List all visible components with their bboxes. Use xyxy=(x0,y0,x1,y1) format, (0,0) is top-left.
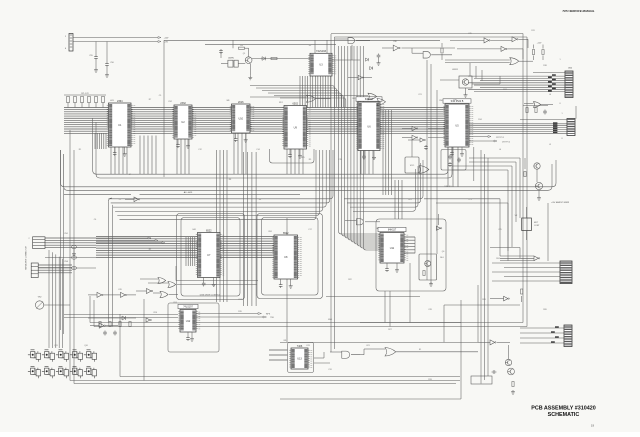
svg-text:R17: R17 xyxy=(503,89,506,91)
wire drops U1 to loop xyxy=(111,147,127,174)
svg-text:R7: R7 xyxy=(149,99,151,101)
svg-text:R18: R18 xyxy=(543,65,546,67)
svg-text:16MHz: 16MHz xyxy=(228,58,234,60)
wire right mid runs xyxy=(469,157,520,159)
svg-text:1: 1 xyxy=(559,59,560,61)
svg-text:C17: C17 xyxy=(308,229,311,231)
wire enclosure U7 outer xyxy=(177,214,245,300)
svg-text:C15: C15 xyxy=(338,159,341,161)
resistor pack RP1 xyxy=(67,97,70,103)
svg-text:8: 8 xyxy=(561,138,562,140)
svg-text:L5: L5 xyxy=(549,144,551,146)
wire verticals right of center xyxy=(426,60,428,280)
ground under IC xyxy=(290,279,292,284)
op-amp U14 xyxy=(436,226,441,230)
gate U4A xyxy=(307,95,316,102)
choke L2 xyxy=(71,256,76,259)
wire serial drop bundle xyxy=(48,250,50,348)
IC U11 74LS157 xyxy=(378,227,408,263)
IC U8 VIA 6522 xyxy=(272,232,301,279)
wire CN2 riser xyxy=(575,106,577,119)
wire CN4 fan xyxy=(492,262,560,264)
wire drops U9 to loop xyxy=(287,149,303,174)
gate U31 AND xyxy=(423,52,430,59)
svg-text:PB0: PB0 xyxy=(439,100,443,102)
gate U19E pair xyxy=(158,278,166,284)
svg-text:R21: R21 xyxy=(408,199,411,201)
svg-text:A0 - A15: A0 - A15 xyxy=(184,191,193,194)
svg-text:CLR: CLR xyxy=(173,302,177,304)
svg-text:CB1: CB1 xyxy=(268,231,272,233)
resistor R10 R11 xyxy=(533,45,535,49)
svg-text:C55: C55 xyxy=(89,55,92,57)
subcircuit caps under U5 xyxy=(441,150,466,171)
wire row1-row2 link bundle B xyxy=(244,152,257,306)
ground under IC xyxy=(299,149,301,154)
capacitor C30 xyxy=(492,370,497,374)
inverter U15B xyxy=(512,37,518,42)
inverter U19F xyxy=(99,323,105,328)
svg-text:R9: R9 xyxy=(309,159,311,161)
capacitor C55 xyxy=(95,42,97,56)
connector CN1A xyxy=(33,237,45,249)
IC U13 74LS04 xyxy=(289,345,312,369)
wire enclosure U8 outer xyxy=(257,214,323,299)
svg-text:R1: R1 xyxy=(79,149,81,151)
resistor-diode cluster xyxy=(56,350,69,362)
wire vertical x144 xyxy=(143,299,145,381)
svg-text:C2: C2 xyxy=(119,199,121,201)
svg-text:CN6: CN6 xyxy=(64,261,68,263)
svg-text:CRT P1 1: CRT P1 1 xyxy=(496,137,504,139)
wire U11 top feed xyxy=(395,180,402,219)
svg-text:U13: U13 xyxy=(306,345,309,347)
svg-text:S1: S1 xyxy=(419,349,421,351)
gate U4B xyxy=(368,93,377,100)
svg-text:R16: R16 xyxy=(453,99,456,101)
svg-text:L6: L6 xyxy=(549,94,551,96)
inverter U15A xyxy=(484,38,490,43)
wire U3 to frame xyxy=(314,40,316,53)
wire mid loop verticals xyxy=(108,201,110,322)
svg-text:R14: R14 xyxy=(478,119,481,121)
gate U19D xyxy=(160,291,168,297)
IC U2 ROM 2332 xyxy=(172,102,196,139)
wire U7 left pin bundle xyxy=(186,237,195,266)
IC U6 74LS157 xyxy=(356,97,384,151)
capacitor decoupling xyxy=(386,263,388,267)
svg-text:R11: R11 xyxy=(531,30,534,32)
wire J1 outputs xyxy=(73,37,158,39)
svg-text:TP3: TP3 xyxy=(468,199,471,201)
svg-text:C25: C25 xyxy=(498,229,501,231)
IC U10 RAM 2016 xyxy=(230,101,254,133)
svg-text:16.6: 16.6 xyxy=(440,257,444,259)
wire big loop 1 xyxy=(93,118,448,174)
resistor-diode cluster xyxy=(42,366,55,378)
wire osc output xyxy=(252,58,310,60)
ground J1 filters xyxy=(95,60,97,68)
wire enclosure U13 xyxy=(288,343,314,373)
svg-text:U4: U4 xyxy=(259,199,261,201)
svg-text:6522: 6522 xyxy=(206,229,212,232)
svg-text:+5V SERVO 2328: +5V SERVO 2328 xyxy=(551,202,569,204)
resistor-diode cluster xyxy=(84,350,97,362)
wire right mid-bottom xyxy=(444,304,520,306)
svg-text:U19: U19 xyxy=(118,289,121,291)
trimmer VR2 xyxy=(35,301,43,309)
transistor Q9 xyxy=(508,368,515,375)
op-amp U27 xyxy=(412,126,418,131)
svg-text:Q6: Q6 xyxy=(442,251,445,253)
wire drop bundle U1-U2 xyxy=(140,136,156,175)
wire motor lines xyxy=(490,247,520,249)
wire bottom right runs xyxy=(280,341,478,343)
svg-text:PCB ASSEMBLY #310420: PCB ASSEMBLY #310420 xyxy=(531,406,596,412)
wire right verticals xyxy=(480,150,482,384)
ground chokes xyxy=(73,249,75,252)
connector CN3 xyxy=(567,119,575,136)
wire box M drop bundle xyxy=(300,76,331,108)
svg-text:+12V: +12V xyxy=(164,38,169,40)
resistor-diode cluster xyxy=(56,366,69,378)
svg-text:L4: L4 xyxy=(499,149,501,151)
ground under IC xyxy=(245,133,247,138)
svg-text:C9: C9 xyxy=(159,95,161,97)
wire CN3 fan xyxy=(469,123,567,125)
capacitor C56 xyxy=(106,42,108,63)
svg-text:C24: C24 xyxy=(238,299,241,301)
svg-text:74LS197: 74LS197 xyxy=(183,306,193,309)
wire Q1 links xyxy=(248,48,250,57)
transistor Q5 xyxy=(535,182,542,189)
wire row2 bus xyxy=(96,237,274,258)
svg-text:R2: R2 xyxy=(149,249,151,251)
svg-text:C28: C28 xyxy=(428,309,431,311)
wire left connector fan 2 xyxy=(38,265,72,273)
crystal Y1 16MHz xyxy=(228,60,233,67)
svg-text:R19: R19 xyxy=(238,311,241,313)
resistor R30 xyxy=(512,382,514,387)
diode CR5 xyxy=(122,316,126,320)
wire top frame horizontal xyxy=(164,39,440,41)
capacitor decoupling xyxy=(114,147,116,151)
subcircuit VCO box xyxy=(405,157,419,173)
svg-text:1: 1 xyxy=(561,113,562,115)
capacitor decoupling xyxy=(203,278,205,282)
wire left connector fan 1 xyxy=(45,238,96,248)
resistor R13 xyxy=(441,43,443,47)
ground Y1 xyxy=(249,64,251,76)
transistor Q1 xyxy=(245,57,252,64)
svg-text:LM311: LM311 xyxy=(452,69,459,71)
wire address label line xyxy=(64,193,131,195)
gate U4C xyxy=(348,38,355,44)
svg-text:74LS193: 74LS193 xyxy=(316,50,327,53)
connector CN2 xyxy=(565,71,573,98)
ground under IC xyxy=(124,147,126,152)
IC U5 VIA 6522 xyxy=(443,99,473,147)
inverter U32 xyxy=(358,75,364,79)
ground under IC xyxy=(373,151,375,156)
svg-text:C14: C14 xyxy=(256,149,259,151)
svg-text:U21: U21 xyxy=(366,345,369,347)
svg-text:64H157: 64H157 xyxy=(388,229,397,232)
op-amp U17 xyxy=(504,296,510,301)
svg-text:CS2: CS2 xyxy=(168,101,172,103)
gate U18 xyxy=(356,219,363,225)
voltage regulator VR1 xyxy=(522,218,532,231)
wire gate row links xyxy=(176,280,258,282)
svg-text:IN1: IN1 xyxy=(284,340,287,342)
capacitor decoupling xyxy=(451,147,453,151)
svg-text:U15: U15 xyxy=(468,33,471,35)
svg-text:7071 SERVICE MANUAL: 7071 SERVICE MANUAL xyxy=(562,9,594,13)
wire U13 to gates xyxy=(314,357,324,359)
wire VIA test points xyxy=(469,136,488,138)
buffer U15C xyxy=(501,46,507,51)
svg-text:CONT: CONT xyxy=(534,225,540,227)
ground Q3 xyxy=(465,88,467,93)
svg-text:U3: U3 xyxy=(309,45,311,47)
subcircuit stepper driver xyxy=(419,254,437,280)
ground under IC xyxy=(213,278,215,283)
svg-text:R26: R26 xyxy=(543,309,546,311)
svg-text:R3: R3 xyxy=(240,45,242,47)
ground under IC xyxy=(396,263,398,268)
wire top right run xyxy=(331,33,523,35)
wire U5 drop xyxy=(473,147,475,181)
resistor R3 xyxy=(239,47,245,49)
svg-text:U11: U11 xyxy=(390,247,395,250)
svg-text:C31: C31 xyxy=(328,369,331,371)
wire drops U5 xyxy=(448,147,458,187)
gate U4D xyxy=(377,98,386,105)
svg-text:DISK DRIVE CONTROL: DISK DRIVE CONTROL xyxy=(200,294,221,296)
connector CN4 xyxy=(560,261,572,284)
resistor network above CN3 xyxy=(526,108,528,113)
gate U24 xyxy=(419,166,429,174)
svg-text:WPS: WPS xyxy=(266,314,271,316)
svg-text:TR0: TR0 xyxy=(270,317,274,319)
svg-text:U13: U13 xyxy=(297,358,302,361)
svg-text:2: 2 xyxy=(29,238,30,240)
wire U11 feed bundle xyxy=(339,46,381,234)
wire mid loop bottoms xyxy=(90,322,523,324)
wire U11 right stubs xyxy=(404,237,415,253)
wire U3 right fan xyxy=(250,86,334,108)
svg-text:VR2: VR2 xyxy=(38,297,42,299)
capacitor C18 xyxy=(377,54,381,59)
capacitor C32 xyxy=(424,145,428,150)
svg-text:+12V: +12V xyxy=(537,43,542,45)
svg-text:C12: C12 xyxy=(198,149,201,151)
wire drops U2 to loop xyxy=(177,139,189,174)
wire U12 leads xyxy=(64,314,178,316)
transistor Q4 xyxy=(534,163,540,169)
wire staggered right extensions xyxy=(344,160,423,199)
svg-text:U10: U10 xyxy=(238,118,243,121)
resistor-diode cluster xyxy=(28,366,41,378)
svg-text:CRT P1 2: CRT P1 2 xyxy=(502,141,510,143)
wire box under U9 xyxy=(270,149,315,163)
capacitor decoupling xyxy=(363,151,365,155)
svg-text:R75: R75 xyxy=(301,157,304,159)
svg-text:R28: R28 xyxy=(482,299,485,301)
wire enclosure U12 xyxy=(168,303,219,352)
connector J1 power xyxy=(69,34,73,52)
wire drops U10 to loop xyxy=(234,133,246,174)
svg-text:SCHEMATIC: SCHEMATIC xyxy=(548,412,580,418)
op-amp U28 xyxy=(412,135,418,140)
capacitor decoupling xyxy=(280,279,282,283)
wire outer band line 2 xyxy=(64,154,552,190)
resistor R31 box xyxy=(471,376,492,384)
resistor-diode cluster xyxy=(70,366,83,378)
inverter U19C xyxy=(147,288,153,293)
wire drops U6 to loop xyxy=(361,151,373,175)
IC U7 VIA 6522 xyxy=(196,229,224,277)
svg-text:DRK SO: DRK SO xyxy=(444,186,452,188)
svg-text:C21: C21 xyxy=(418,94,421,96)
svg-text:R27: R27 xyxy=(388,329,391,331)
inverter U26 xyxy=(146,318,151,322)
connector CN1B xyxy=(31,263,38,278)
capacitor decoupling xyxy=(177,139,179,143)
resistor-diode cluster xyxy=(70,350,83,362)
gate U21 xyxy=(342,351,350,358)
IC U12 74LS197 xyxy=(178,304,200,332)
svg-text:U30: U30 xyxy=(393,41,396,43)
wire big loop 2 xyxy=(96,122,452,178)
capacitor decoupling xyxy=(289,149,291,153)
wire CN2 fan xyxy=(468,75,565,77)
svg-text:2332: 2332 xyxy=(180,102,186,105)
ground Q5 xyxy=(538,190,540,196)
inverter U20A xyxy=(134,197,140,202)
connector CN5 xyxy=(564,325,572,347)
wire outer band line 1 xyxy=(61,150,557,187)
svg-text:8: 8 xyxy=(559,103,560,105)
svg-text:6502: 6502 xyxy=(292,102,298,105)
component reference labels xyxy=(54,30,562,381)
comparator Q3 LM311 xyxy=(459,76,472,88)
ground under IC xyxy=(187,139,189,144)
wire center verticals xyxy=(330,34,332,323)
resistor-diode cluster xyxy=(84,366,97,378)
wire bottom long doubles xyxy=(70,380,460,382)
wire mid bottom long xyxy=(120,376,460,378)
svg-text:2016: 2016 xyxy=(238,101,244,104)
resistor-diode cluster xyxy=(28,350,41,362)
svg-text:SEL: SEL xyxy=(352,98,356,100)
ground under IC xyxy=(461,147,463,152)
svg-text:R8: R8 xyxy=(229,179,231,181)
diode network left xyxy=(88,317,136,319)
wire drop bundle left of U1 xyxy=(95,133,106,149)
svg-text:C6: C6 xyxy=(94,219,96,221)
svg-text:C56: C56 xyxy=(110,62,113,64)
svg-text:VCO: VCO xyxy=(410,165,415,167)
choke L3 xyxy=(71,266,76,269)
op-amp U16 xyxy=(534,256,540,261)
svg-text:CR6: CR6 xyxy=(153,312,157,314)
svg-text:RP 4.7K: RP 4.7K xyxy=(81,93,89,95)
wire enclosure U8 inner xyxy=(262,218,319,296)
wire U11 drops xyxy=(384,291,386,323)
svg-text:Q10: Q10 xyxy=(84,345,88,347)
IC U3 divider 74LS193 xyxy=(308,50,336,76)
wire left outer verticals xyxy=(69,130,71,381)
svg-text:SERIAL BUS CONNECTOR: SERIAL BUS CONNECTOR xyxy=(25,245,28,269)
svg-text:C7: C7 xyxy=(129,174,131,176)
svg-text:6522: 6522 xyxy=(283,232,289,235)
transistor Q8 xyxy=(505,359,511,365)
wire data-address bus row1 xyxy=(64,108,445,134)
wire U13 inputs xyxy=(269,350,288,360)
svg-text:R33: R33 xyxy=(428,379,431,381)
svg-text:2364: 2364 xyxy=(117,100,123,103)
gate U15E xyxy=(533,102,540,108)
resistor R5 xyxy=(271,57,277,59)
svg-text:GND: GND xyxy=(328,319,333,321)
resistor R25 xyxy=(521,289,523,294)
inverter U23 xyxy=(490,340,496,345)
inverter U19A xyxy=(97,292,103,297)
IC U1 ROM 2364 xyxy=(107,100,135,147)
diode CR7 CR8 xyxy=(365,58,368,61)
svg-text:Q1: Q1 xyxy=(243,53,246,55)
wire gate feeds xyxy=(330,323,332,353)
gate U22 xyxy=(385,348,396,356)
resistor-diode cluster xyxy=(42,350,55,362)
capacitor decoupling xyxy=(235,133,237,137)
svg-text:R24: R24 xyxy=(496,258,499,260)
wire CN4 riser xyxy=(547,203,549,261)
capacitor C29 xyxy=(187,332,189,336)
inverter U19B xyxy=(121,292,127,297)
wire frame vertical x164 xyxy=(163,40,165,177)
capacitor C4 xyxy=(219,49,223,54)
wire staggered mid band lines xyxy=(109,150,334,199)
svg-text:A13: A13 xyxy=(110,99,113,102)
wire U6 right drop bundle xyxy=(383,110,391,195)
svg-text:R22: R22 xyxy=(348,279,351,281)
wire Q8 collector xyxy=(508,345,510,359)
gate U15D xyxy=(510,58,519,65)
resistor R20 xyxy=(524,172,526,177)
svg-text:7406: 7406 xyxy=(297,345,303,348)
wire enclosure U11 xyxy=(376,219,446,291)
IC U9 CPU 6502 xyxy=(282,102,310,149)
choke L1 xyxy=(71,245,76,248)
ground U12 xyxy=(191,332,193,337)
wire CN5 fan xyxy=(520,327,564,329)
svg-text:CA1: CA1 xyxy=(192,228,196,231)
op-amp U30 xyxy=(393,45,400,51)
inverter U25 xyxy=(420,138,425,142)
wire vertical x287 xyxy=(286,218,288,342)
wire row1-row2 link bundle A xyxy=(217,150,228,302)
wire enclosure U7 inner xyxy=(181,218,240,297)
wire vertical x461 xyxy=(460,300,462,399)
svg-text:U12: U12 xyxy=(186,320,191,323)
svg-text:Q11: Q11 xyxy=(54,345,57,347)
wire Q4-Q5 xyxy=(536,169,538,182)
diode CR1 xyxy=(262,57,266,61)
svg-text:CN1: CN1 xyxy=(64,233,68,235)
